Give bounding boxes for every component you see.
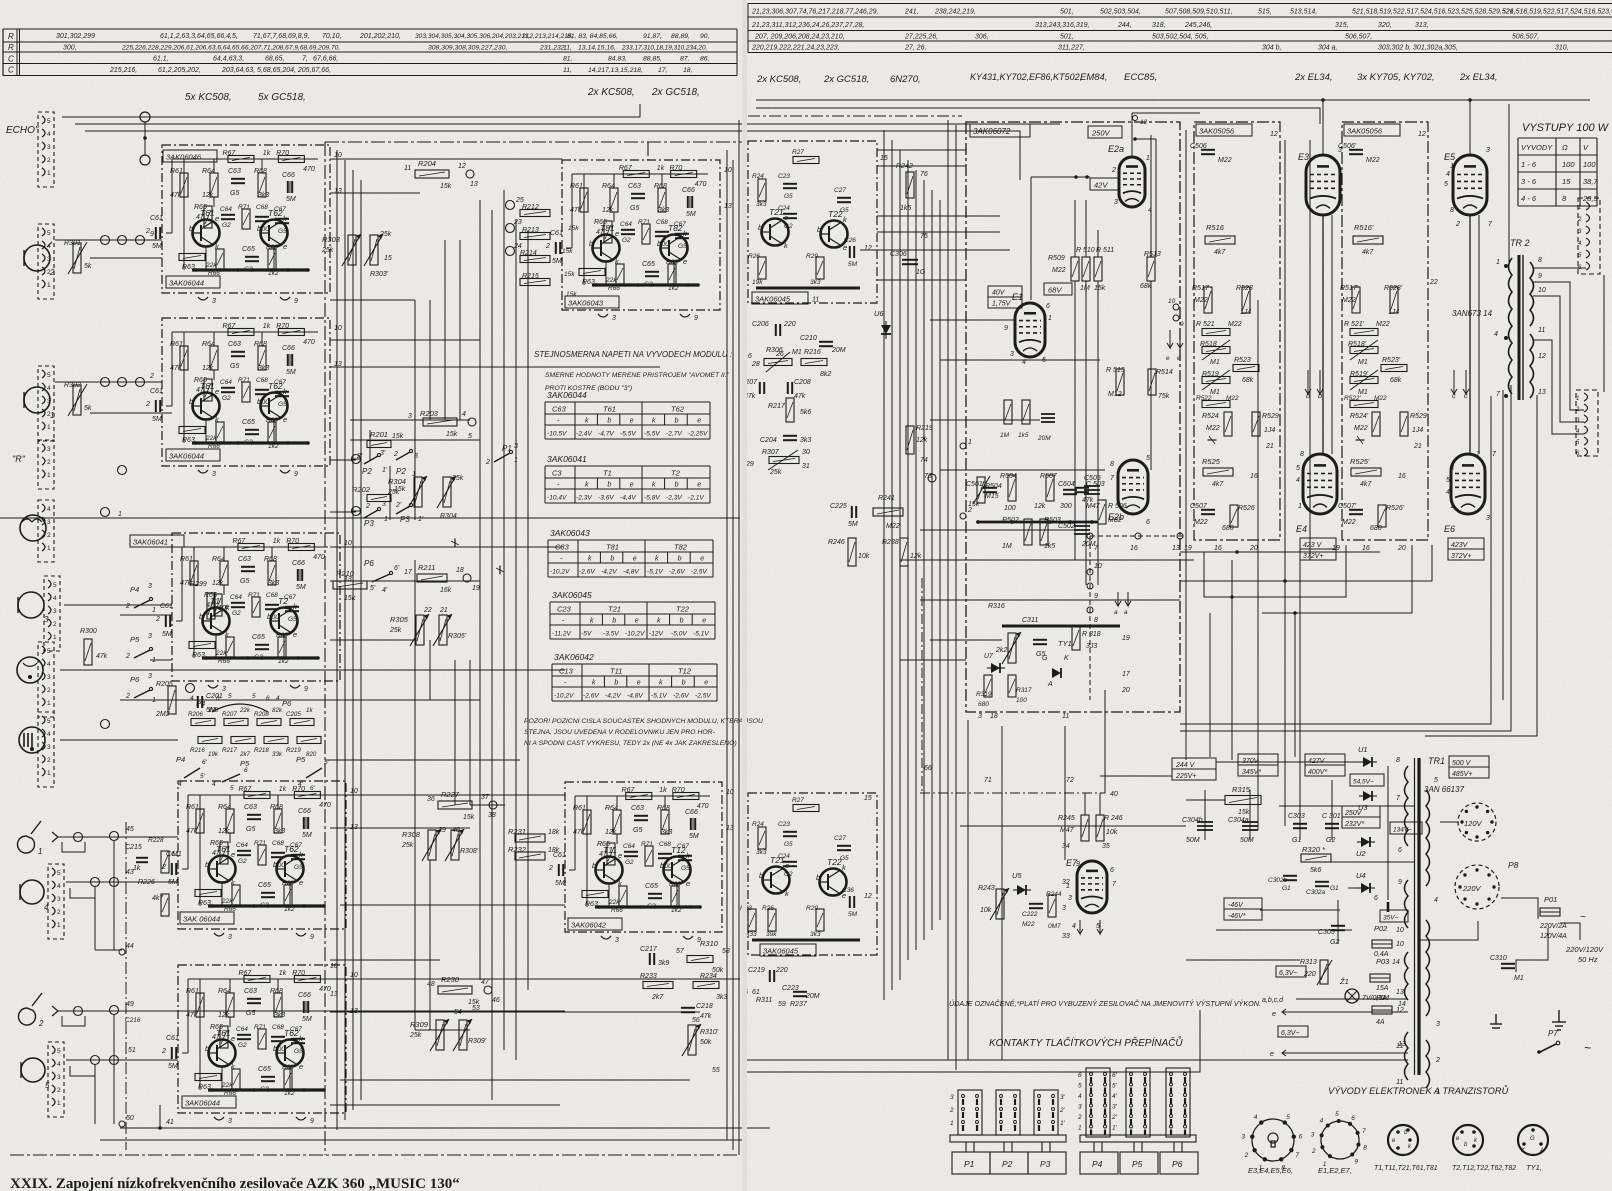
svg-text:-5,1V: -5,1V [647, 569, 663, 576]
resistor R71 [642, 224, 650, 244]
svg-text:TY1,: TY1, [1526, 1163, 1542, 1172]
connector pickup [38, 500, 54, 562]
svg-text:C23: C23 [557, 605, 572, 614]
svg-text:e: e [1270, 1051, 1274, 1058]
switch column P6 [1166, 1068, 1190, 1137]
svg-text:R304: R304 [388, 477, 406, 486]
capacitor C68 [658, 854, 672, 858]
svg-text:k: k [585, 482, 589, 489]
pot R518 [1350, 347, 1378, 354]
svg-text:9: 9 [1398, 879, 1402, 886]
svg-text:3AK06045: 3AK06045 [755, 295, 791, 304]
svg-text:42V: 42V [1094, 181, 1108, 190]
svg-text:1k: 1k [273, 538, 281, 545]
svg-text:C24: C24 [778, 853, 790, 860]
svg-text:b: b [682, 680, 686, 687]
svg-text:C68: C68 [272, 840, 284, 847]
module label 3AK06043 [565, 296, 619, 308]
tube socket octal E3-E6 [1252, 1119, 1294, 1161]
svg-text:T61: T61 [603, 405, 616, 414]
svg-text:-10,2V: -10,2V [550, 569, 570, 576]
pins 7 16 13 dashed link [1090, 535, 1185, 537]
svg-text:-4,2V: -4,2V [601, 569, 617, 576]
svg-text:21: 21 [1413, 443, 1422, 450]
svg-text:47k: 47k [700, 1013, 712, 1020]
svg-text:T62: T62 [284, 1028, 299, 1038]
svg-text:0M7: 0M7 [1048, 923, 1061, 930]
svg-text:225V+: 225V+ [1175, 773, 1196, 780]
svg-text:10: 10 [334, 152, 342, 159]
svg-text:8: 8 [1094, 617, 1098, 624]
svg-text:P5: P5 [1132, 1159, 1143, 1169]
pin 9 [296, 933, 306, 936]
svg-text:C64: C64 [230, 594, 242, 601]
svg-text:-5,1V: -5,1V [693, 631, 709, 638]
svg-text:G5: G5 [230, 363, 239, 370]
module 3AK 06044 box [178, 781, 346, 929]
svg-text:C65: C65 [242, 419, 255, 426]
svg-text:C210: C210 [800, 335, 817, 342]
svg-text:-4,4V: -4,4V [620, 495, 636, 502]
svg-text:G: G [1530, 1136, 1535, 1142]
svg-text:8: 8 [1396, 757, 1400, 764]
parts index table left page [3, 29, 737, 76]
boxed label 244V 225V [1172, 758, 1216, 780]
capacitor C23 [783, 184, 797, 188]
svg-text:P2: P2 [362, 467, 372, 476]
R507 12k [1046, 475, 1054, 501]
svg-text:13: 13 [470, 181, 478, 188]
wire verticals between modules and tables [479, 200, 481, 980]
svg-text:C68: C68 [266, 592, 278, 599]
svg-text:P1: P1 [964, 1159, 975, 1169]
microphone input 5 [21, 1058, 45, 1082]
svg-text:8k2: 8k2 [820, 371, 831, 378]
svg-text:6: 6 [1146, 519, 1150, 526]
svg-text:C66: C66 [298, 992, 311, 999]
resistor R205 2M2 [168, 686, 176, 714]
svg-text:G: G [1042, 655, 1048, 662]
svg-text:R218: R218 [254, 747, 269, 754]
svg-text:5: 5 [1296, 465, 1300, 472]
capacitor C63 [247, 815, 261, 819]
svg-text:2': 2' [1111, 1114, 1118, 1121]
svg-text:b: b [205, 860, 209, 869]
svg-text:33: 33 [1062, 933, 1070, 940]
svg-text:423V: 423V [1451, 542, 1469, 549]
svg-text:R305': R305' [448, 633, 467, 640]
svg-text:23: 23 [513, 219, 522, 226]
pin 3 [214, 1117, 224, 1120]
svg-text:4': 4' [298, 781, 304, 788]
C604 300 [1063, 490, 1077, 494]
resistor R65 [204, 379, 212, 401]
svg-text:R519: R519 [1202, 371, 1219, 378]
switch column P3 [1034, 1090, 1058, 1135]
svg-text:2: 2 [47, 157, 51, 164]
switch box P3 [1028, 1152, 1066, 1174]
svg-text:11,: 11, [563, 67, 572, 74]
svg-text:64,4,63,3,: 64,4,63,3, [213, 56, 244, 63]
svg-text:5: 5 [228, 693, 232, 700]
resistor R71 [258, 845, 266, 865]
svg-text:304 b,: 304 b, [1262, 45, 1282, 52]
svg-text:2: 2 [145, 228, 150, 235]
svg-text:5: 5 [1286, 1114, 1290, 1121]
svg-text:STEJNA, JSOU UVEDENA V RODELOV: STEJNA, JSOU UVEDENA V RODELOVNIKU JEN P… [524, 729, 716, 736]
svg-text:3: 3 [1068, 895, 1072, 902]
resistor R64 [610, 188, 618, 212]
svg-text:4: 4 [1296, 477, 1300, 484]
svg-text:12k: 12k [916, 437, 928, 444]
svg-text:R67: R67 [222, 150, 236, 157]
svg-text:C306: C306 [890, 251, 907, 258]
svg-text:82k: 82k [272, 707, 283, 714]
svg-text:10: 10 [1094, 563, 1102, 570]
svg-text:2: 2 [1577, 217, 1582, 223]
C222 M22 [1029, 904, 1043, 908]
capacitor C68 [655, 232, 669, 236]
svg-text:68k: 68k [1390, 377, 1402, 384]
svg-text:-10,2V: -10,2V [625, 631, 645, 638]
svg-text:3AK06044: 3AK06044 [185, 1099, 220, 1108]
svg-text:207, 209,206,208,24,23,210,: 207, 209,206,208,24,23,210, [754, 34, 845, 41]
pin 3 [601, 936, 611, 939]
svg-text:R67: R67 [238, 786, 252, 793]
svg-text:G2: G2 [625, 859, 634, 866]
svg-text:9: 9 [1004, 325, 1008, 332]
svg-text:57: 57 [676, 948, 685, 955]
svg-text:C65: C65 [258, 1066, 271, 1073]
diode U4 [1357, 883, 1375, 893]
capacitor C65 [645, 272, 659, 276]
resistor R71 [252, 597, 260, 617]
connector mic3 [44, 576, 60, 651]
svg-text:P4: P4 [1092, 1159, 1103, 1169]
resistor R65 [220, 1026, 228, 1048]
svg-text:b: b [273, 1044, 277, 1053]
svg-text:e: e [700, 556, 704, 563]
svg-text:C63: C63 [552, 405, 567, 414]
svg-text:b: b [660, 861, 664, 870]
svg-text:C64: C64 [623, 843, 635, 850]
svg-text:470: 470 [695, 181, 707, 188]
svg-text:G2: G2 [222, 395, 231, 402]
C503 47k [1075, 488, 1089, 492]
resistor R69 [268, 422, 276, 442]
svg-text:C302a: C302a [1306, 889, 1326, 896]
svg-text:C65: C65 [252, 634, 265, 641]
resistor R67 [238, 544, 264, 551]
pot R306 M1 [764, 359, 792, 366]
wire module top rail [188, 978, 334, 980]
svg-text:5M: 5M [152, 243, 162, 250]
wire dash-dot chassis bottom [10, 1154, 740, 1156]
svg-text:5: 5 [47, 118, 51, 125]
svg-text:-2,1V: -2,1V [688, 495, 704, 502]
svg-text:304 a,: 304 a, [1318, 45, 1338, 52]
svg-text:315,: 315, [1335, 22, 1349, 29]
svg-text:1k: 1k [279, 970, 287, 977]
svg-text:1J4: 1J4 [1388, 309, 1399, 316]
svg-text:-4,2V: -4,2V [605, 693, 621, 700]
tube socket noval E1 E2 E7 [1321, 1121, 1359, 1159]
svg-text:1: 1 [1146, 155, 1150, 162]
svg-text:M1: M1 [1210, 359, 1220, 366]
capacitor C63 [631, 194, 645, 198]
svg-text:G5: G5 [230, 190, 239, 197]
svg-text:1: 1 [47, 424, 51, 431]
resistor R65 [204, 206, 212, 228]
svg-text:1: 1 [1496, 259, 1500, 266]
svg-text:M22: M22 [1226, 395, 1239, 402]
svg-text:XXIX. Zapojení nízkofrekvenčn: XXIX. Zapojení nízkofrekvenčního zesilov… [10, 1176, 460, 1191]
pot R301 5k [73, 243, 81, 273]
svg-text:R243: R243 [978, 885, 995, 892]
resistor R211 16k [451, 539, 459, 547]
svg-text:-2,3V: -2,3V [576, 495, 592, 502]
svg-text:3': 3' [1112, 1104, 1118, 1111]
capacitor C68 [265, 605, 279, 609]
svg-text:2: 2 [145, 401, 150, 408]
svg-text:-2,3V: -2,3V [666, 495, 682, 502]
svg-text:3: 3 [1338, 147, 1342, 154]
svg-text:P1: P1 [502, 444, 512, 453]
resistor R68 [661, 810, 669, 834]
module label 3AK 06044 [180, 912, 234, 924]
svg-text:5x GC518,: 5x GC518, [258, 92, 306, 103]
wire mid horizontals [350, 439, 480, 441]
pot R305b [439, 615, 447, 645]
svg-text:5': 5' [370, 585, 376, 592]
svg-text:R315: R315 [1232, 785, 1251, 794]
svg-text:2: 2 [393, 451, 398, 458]
capacitor C67 [275, 219, 289, 223]
resistor R525 [1351, 468, 1381, 476]
svg-text:4k7: 4k7 [1214, 249, 1226, 256]
svg-text:19k: 19k [752, 279, 763, 286]
svg-text:56: 56 [692, 1017, 700, 1024]
svg-text:120V/4A: 120V/4A [1540, 933, 1567, 940]
svg-text:16: 16 [1130, 545, 1138, 552]
svg-text:R238: R238 [882, 539, 899, 546]
svg-text:C61: C61 [150, 388, 163, 395]
svg-text:12: 12 [864, 893, 872, 900]
boxed label 423V 372V [1300, 538, 1336, 560]
svg-text:2': 2' [1059, 1107, 1066, 1114]
svg-text:R 246: R 246 [1104, 815, 1123, 822]
svg-text:2: 2 [57, 909, 61, 916]
svg-text:R67: R67 [222, 323, 236, 330]
svg-text:R306: R306 [766, 347, 783, 354]
resistor R522 [1350, 401, 1378, 408]
capacitor C303 [1293, 824, 1307, 828]
svg-text:-4,7V: -4,7V [598, 431, 614, 438]
svg-text:6: 6 [1110, 867, 1114, 874]
pot R519 [1350, 377, 1378, 384]
svg-text:R217: R217 [222, 747, 237, 754]
svg-text:R24: R24 [752, 173, 764, 180]
svg-text:R64: R64 [218, 804, 231, 811]
capacitor C304a [1242, 822, 1258, 830]
svg-text:2: 2 [1111, 167, 1116, 174]
wire module top rail [575, 795, 710, 797]
svg-text:5: 5 [1434, 777, 1438, 784]
svg-text:84,83,: 84,83, [608, 56, 627, 63]
thyristor socket TY1 [1518, 1125, 1548, 1155]
svg-text:VYSTUPY 100 W: VYSTUPY 100 W [1522, 122, 1610, 134]
svg-text:70,10,: 70,10, [322, 33, 342, 40]
svg-text:12: 12 [1140, 119, 1148, 126]
resistor R26 [758, 257, 766, 279]
transistor T22 bottom [820, 869, 847, 896]
svg-text:T11: T11 [610, 667, 622, 676]
svg-text:T1: T1 [210, 596, 220, 606]
svg-text:-3,6V: -3,6V [598, 495, 614, 502]
module label 3AK05056 a [1196, 124, 1252, 136]
transistor T21 top [762, 219, 789, 246]
svg-text:b: b [678, 556, 682, 563]
svg-text:P4: P4 [130, 585, 139, 594]
svg-text:521,518,519,522,517,524,516,52: 521,518,519,522,517,524,516,523,525,528,… [1352, 9, 1516, 16]
R317 100 [1008, 675, 1016, 697]
svg-text:3AK06041: 3AK06041 [547, 454, 587, 464]
svg-text:241,: 241, [904, 9, 919, 16]
R210 15k resistor [333, 581, 367, 589]
capacitor C66 [688, 196, 692, 208]
svg-text:18k: 18k [548, 847, 560, 854]
svg-text:18: 18 [990, 713, 998, 720]
svg-text:P01: P01 [1544, 895, 1557, 904]
svg-text:820: 820 [306, 751, 317, 758]
nodes mic5 [91, 1056, 100, 1065]
svg-text:311,227,: 311,227, [1058, 45, 1085, 52]
output terminal strip bottom [1576, 390, 1598, 456]
microphone input 2 [24, 245, 50, 271]
svg-text:k: k [590, 618, 594, 625]
svg-text:M47: M47 [1060, 827, 1075, 834]
svg-text:2: 2 [38, 1019, 44, 1028]
svg-text:e: e [225, 602, 229, 611]
svg-text:225,226,228,229,206,61,206,63,: 225,226,228,229,206,61,206,63,6,64,65,66… [121, 45, 340, 52]
svg-text:10: 10 [1396, 927, 1404, 934]
svg-text:-5V: -5V [581, 631, 592, 638]
svg-text:19: 19 [1184, 545, 1192, 552]
svg-text:15k: 15k [564, 271, 575, 278]
resistor R66 [619, 886, 627, 906]
svg-text:4: 4 [1072, 923, 1076, 930]
svg-text:28: 28 [751, 361, 760, 368]
svg-text:22k: 22k [608, 899, 620, 906]
svg-text:3J3: 3J3 [1086, 643, 1097, 650]
svg-text:G2: G2 [784, 223, 793, 230]
svg-text:12k: 12k [1034, 503, 1046, 510]
svg-text:15k: 15k [446, 431, 458, 438]
svg-text:310,: 310, [1555, 45, 1569, 52]
svg-text:T12: T12 [671, 845, 686, 855]
svg-text:6: 6 [1078, 1072, 1082, 1079]
svg-text:R320 *: R320 * [1302, 845, 1326, 854]
svg-text:T2: T2 [278, 596, 288, 606]
svg-text:4: 4 [47, 661, 51, 668]
svg-text:KONTAKTY TLAČÍTKOVÝCH PŘEPÍNAČ: KONTAKTY TLAČÍTKOVÝCH PŘEPÍNAČŮ [989, 1035, 1183, 1049]
svg-text:P04: P04 [1376, 993, 1389, 1002]
svg-text:1: 1 [47, 170, 51, 177]
svg-text:3: 3 [1436, 1021, 1440, 1028]
wire left extra verticals [414, 300, 416, 520]
capacitor C61 [166, 615, 170, 627]
svg-text:M22: M22 [1376, 321, 1390, 328]
svg-text:G5: G5 [840, 855, 849, 862]
tube E5 [1453, 155, 1487, 215]
resistor R61 [180, 173, 188, 197]
svg-text:e: e [704, 680, 708, 687]
svg-text:-5,0V: -5,0V [671, 631, 687, 638]
guitar input 1 [17, 821, 41, 853]
svg-text:12k: 12k [218, 1012, 230, 1019]
svg-text:G5: G5 [633, 827, 642, 834]
svg-text:3 - 6: 3 - 6 [1521, 177, 1537, 186]
pin 3 [598, 314, 608, 317]
capacitor C61 [172, 1047, 176, 1059]
nodes mic1 [101, 378, 110, 387]
svg-text:a,b,c,d: a,b,c,d [1262, 997, 1284, 1004]
svg-text:12: 12 [1538, 353, 1546, 360]
svg-text:C61: C61 [166, 1035, 179, 1042]
resistor R203 15k [423, 418, 457, 426]
svg-text:515,: 515, [1258, 9, 1272, 16]
svg-text:303,304,305,304,305,306,204,20: 303,304,305,304,305,306,204,203,211, [415, 33, 530, 40]
resistor R26b [768, 909, 776, 931]
svg-text:76: 76 [920, 171, 928, 178]
svg-text:3: 3 [1486, 147, 1490, 154]
svg-text:3k3: 3k3 [258, 365, 269, 372]
svg-text:G2: G2 [238, 1042, 247, 1049]
svg-text:4: 4 [47, 506, 51, 513]
resistor R64 [226, 809, 234, 833]
transistor socket T2 group [1453, 1125, 1483, 1155]
svg-text:Ω: Ω [1562, 143, 1568, 152]
svg-text:15k: 15k [392, 433, 404, 440]
resistor R71 [242, 382, 250, 402]
svg-text:M22: M22 [1194, 297, 1208, 304]
transistor T62 [277, 1040, 304, 1067]
svg-text:3: 3 [1311, 1131, 1315, 1138]
resistor pair above bus [1004, 400, 1012, 424]
lamp Z1 [1345, 989, 1359, 1003]
svg-text:G2: G2 [232, 610, 241, 617]
resistor R526 [1230, 505, 1238, 527]
svg-text:100: 100 [1016, 697, 1027, 704]
svg-text:1k: 1k [659, 787, 667, 794]
svg-text:1: 1 [38, 847, 42, 856]
svg-text:1k: 1k [657, 165, 665, 172]
resistors R509 R510 R511 R513 [1071, 257, 1079, 281]
svg-text:9: 9 [150, 231, 154, 238]
wire bus verticals mid-left [336, 150, 338, 1130]
svg-text:11: 11 [1396, 1043, 1403, 1050]
pot R519 [1202, 377, 1230, 384]
svg-text:313,: 313, [1415, 22, 1429, 29]
node circles echo [140, 112, 150, 122]
svg-text:ECHO": ECHO" [6, 125, 39, 136]
svg-text:15k: 15k [344, 595, 356, 602]
svg-text:81,: 81, [563, 56, 573, 63]
svg-text:244 V: 244 V [1175, 762, 1196, 769]
svg-text:R24: R24 [752, 821, 764, 828]
svg-text:3AK06044: 3AK06044 [169, 279, 204, 288]
svg-text:R507: R507 [1040, 473, 1058, 480]
